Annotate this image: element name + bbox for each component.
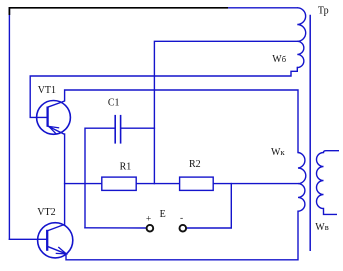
svg-text:+: + bbox=[146, 214, 151, 224]
wire minus terminal bbox=[186, 184, 231, 228]
svg-text:C1: C1 bbox=[108, 98, 120, 109]
battery terminal plus bbox=[147, 225, 154, 232]
svg-text:Wб: Wб bbox=[272, 54, 286, 65]
wire C1 right bbox=[121, 127, 154, 129]
svg-text:E: E bbox=[160, 209, 166, 220]
svg-text:Wв: Wв bbox=[315, 222, 328, 233]
wire top y=7.8 (blue part) bbox=[228, 7, 297, 9]
wire VT1 collector to Wk top bbox=[65, 90, 298, 153]
svg-text:VT2: VT2 bbox=[37, 207, 55, 218]
transformer core bbox=[309, 15, 311, 251]
transformer winding Wk bbox=[298, 153, 306, 212]
transistor VT2 bbox=[38, 223, 73, 258]
transistor VT1 bbox=[37, 101, 71, 135]
svg-text:-: - bbox=[180, 214, 183, 224]
wire Wb centre tap bbox=[154, 41, 297, 183]
svg-text:R2: R2 bbox=[189, 159, 201, 170]
frame border top-left (black) bbox=[9, 8, 228, 15]
svg-text:R1: R1 bbox=[120, 161, 132, 172]
wire VT2 base bbox=[9, 238, 47, 240]
battery terminal minus bbox=[180, 225, 187, 232]
wire C1 left bbox=[85, 128, 115, 228]
resistor R1 bbox=[102, 177, 136, 190]
wire VT1 base loop to Wb bottom bbox=[30, 68, 297, 118]
transformer winding Wb bbox=[297, 8, 305, 68]
svg-text:VT1: VT1 bbox=[38, 85, 56, 96]
wire mid rail through R1 R2 bbox=[65, 183, 298, 185]
wire left vertical x=9.4 bbox=[8, 8, 10, 239]
svg-text:Wк: Wк bbox=[271, 147, 285, 158]
transformer winding Wv bbox=[317, 151, 340, 215]
resistor R2 bbox=[180, 177, 214, 190]
wire VT1 emitter / VT2 collector vertical bbox=[64, 134, 66, 224]
svg-text:Тр: Тр bbox=[318, 5, 329, 16]
wire plus terminal bbox=[85, 227, 147, 229]
capacitor C1 bbox=[115, 115, 120, 144]
wire bottom VT2 emitter to Wk bottom bbox=[66, 211, 298, 260]
